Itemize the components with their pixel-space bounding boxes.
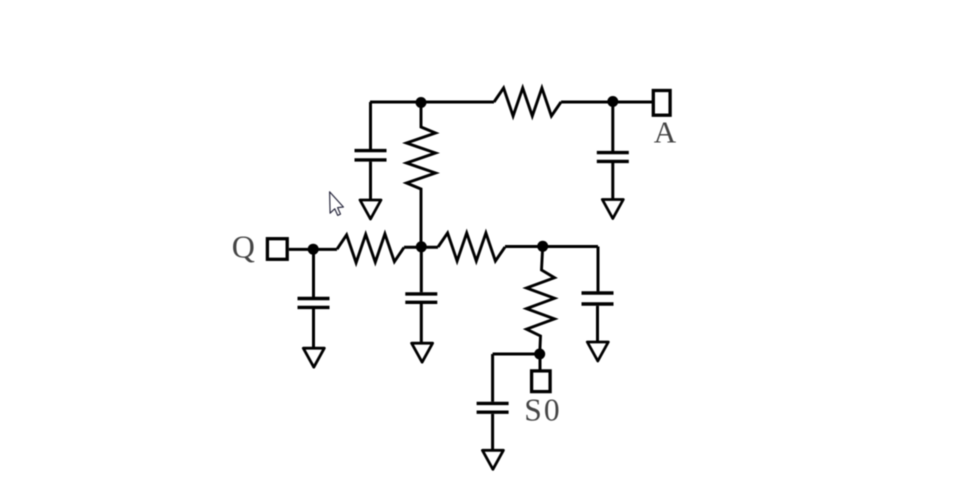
ground x313 [303, 348, 324, 367]
resistor vertical top x421 [407, 102, 436, 247]
ground x492 [482, 450, 503, 469]
wire cap branch x313 upper lead [312, 249, 315, 297]
port Q square [267, 239, 287, 260]
wire middle row (289,248)-(337,248) [289, 248, 337, 251]
wire bottom row (492,354)-(540,354) [493, 353, 540, 356]
ground x613 [602, 200, 623, 219]
node junction (421.5,247) [416, 241, 427, 252]
resistor top horizontal [494, 88, 561, 116]
wire top row right (561,102)-(652,102) [561, 101, 652, 104]
resistor middle right [438, 233, 505, 261]
svg-text:S0: S0 [524, 393, 561, 428]
wire middle row (505,247)-(598,247) [505, 245, 598, 248]
wire top row left (370,102)-(494,102) [370, 101, 494, 104]
wire corner (598,247)-(598,291) [597, 247, 600, 292]
svg-text:A: A [654, 114, 677, 149]
node junction (540,354) [534, 349, 545, 360]
wire cap branch x613 lower lead [611, 163, 614, 200]
wire cap branch x598 lower lead [596, 306, 599, 342]
node junction (543,246) [537, 241, 548, 252]
wire port S0 stub [539, 354, 542, 371]
wire cap branch x370 upper lead [369, 102, 372, 149]
ground x370 [360, 200, 381, 219]
ground x598 [587, 342, 608, 361]
node junction (613,102) [607, 96, 618, 107]
wire cap branch x492 lower lead [491, 414, 494, 450]
ground x421 [412, 343, 433, 362]
capacitor at x421 [405, 294, 437, 302]
capacitor at x313 [298, 299, 330, 308]
svg-text:Q: Q [232, 229, 255, 265]
wire cap branch x492 upper lead [491, 354, 494, 402]
resistor middle left [337, 234, 404, 263]
wire cap branch x421 upper lead [420, 247, 423, 292]
port S0 square [532, 371, 551, 392]
wire cap branch x613 upper lead [611, 102, 614, 151]
wire cap branch x313 lower lead [312, 309, 315, 348]
resistor vertical bottom x541 [527, 247, 555, 355]
mouse cursor [330, 192, 344, 216]
node junction (421,102) [416, 97, 427, 108]
wire middle row (404,248)-(438,247) [404, 246, 438, 249]
capacitor at x370 [355, 151, 387, 160]
capacitor at x492 [477, 403, 509, 412]
wire cap branch x370 lower lead [369, 162, 372, 200]
node junction (313,248) [308, 244, 319, 255]
wire cap branch x421 lower lead [420, 304, 423, 343]
port A square [653, 91, 670, 116]
capacitor at x613 [597, 153, 629, 162]
capacitor at x598 [582, 293, 614, 304]
